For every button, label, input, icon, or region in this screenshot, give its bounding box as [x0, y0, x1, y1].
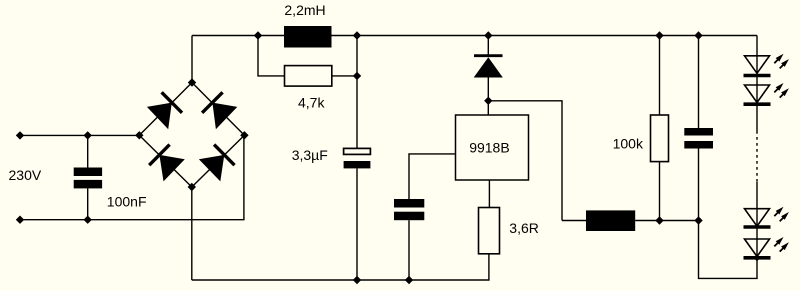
wire AC bottom line with riser to bridge right node: [20, 135, 244, 219]
wire 100nF top lead: [87, 135, 89, 167]
wire IC left lead to C2: [409, 154, 456, 199]
capacitor 100nF plates: [74, 168, 102, 189]
wire bridge edge left-bottom: [139, 135, 192, 187]
node 4,7k right: [353, 72, 361, 80]
node rail C3: [694, 31, 702, 39]
LED D4: [744, 207, 789, 227]
wire 4,7k left branch: [258, 36, 285, 76]
resistor 3,6R: [479, 208, 500, 254]
node bridge bottom: [188, 183, 196, 191]
node 100nF top: [84, 131, 92, 139]
svg-text:4,7k: 4,7k: [298, 94, 325, 110]
resistor 4,7k: [285, 66, 332, 87]
wire dashed continuation of LED string: [756, 131, 758, 182]
wire output bottom return to LED string: [699, 221, 758, 279]
resistor 100k: [651, 115, 669, 162]
wire top DC+ rail: [192, 35, 757, 37]
diode bridge D_br: [199, 145, 235, 182]
wire AC top line: [20, 134, 139, 136]
wire bridge bottom node drop: [191, 187, 193, 280]
svg-text:3,6R: 3,6R: [509, 220, 539, 236]
LED D2: [744, 54, 789, 76]
node L2 line 100k: [655, 216, 663, 224]
wire L2 left lead: [562, 220, 586, 222]
node rail 3,3uF: [353, 31, 361, 39]
svg-text:2,2mH: 2,2mH: [284, 2, 325, 18]
LED D5: [744, 237, 789, 258]
node L2 line C3: [694, 216, 702, 224]
IC U1 9918B: [456, 115, 529, 180]
wire bottom DC- rail with turn up to 3,6R: [192, 254, 489, 280]
wire 3,3uF top lead from rail: [356, 36, 358, 149]
svg-text:230V: 230V: [9, 167, 42, 183]
wire 100k top lead: [659, 36, 661, 116]
capacitor 3,3uF polarized: [344, 148, 371, 168]
node terminal AC bottom: [16, 216, 24, 224]
node LED D5 cathode: [754, 254, 761, 261]
node bridge top: [188, 78, 196, 86]
wire diode D1 bottom lead to IC: [487, 78, 489, 116]
diode bridge D_bl: [149, 145, 185, 182]
node rail 4,7k branch: [254, 31, 262, 39]
wire C2 bottom lead to rail: [408, 220, 410, 280]
wire C3 bottom lead: [698, 149, 700, 221]
svg-text:3,3µF: 3,3µF: [292, 147, 328, 163]
wire bridge top node riser: [191, 36, 193, 83]
wire bridge edge top-right: [192, 83, 244, 136]
diode bridge D_tr: [202, 92, 237, 129]
node 100nF bottom: [84, 216, 92, 224]
svg-text:100k: 100k: [613, 136, 644, 152]
svg-text:9918B: 9918B: [469, 140, 509, 156]
node terminal AC top: [16, 131, 24, 139]
LED D3: [744, 83, 789, 104]
inductor L2: [586, 210, 635, 231]
wire C3 top lead: [698, 36, 700, 129]
wire bridge edge left-top: [139, 83, 192, 136]
wire IC bottom lead to 3,6R: [488, 180, 490, 208]
wire 3,3uF bottom lead to rail: [356, 168, 358, 280]
diode bridge D_tl: [147, 92, 182, 129]
wire 100k bottom lead: [659, 162, 661, 221]
wire 100nF bottom lead: [87, 188, 89, 219]
node bridge left: [135, 131, 143, 139]
node bottom rail 3,3uF: [353, 276, 361, 284]
capacitor C3 plates: [684, 128, 713, 149]
node bottom rail C2: [405, 276, 413, 284]
wire bridge edge bottom-right: [192, 135, 245, 187]
node bridge right: [240, 131, 248, 139]
wire 4,7k right lead: [332, 75, 357, 77]
node rail 100k: [655, 31, 663, 39]
wire L2 right lead: [635, 220, 698, 222]
inductor L1 2,2mH: [284, 26, 332, 48]
diode D1 (vertical, cathode up): [474, 56, 503, 78]
wire LED string top section: [756, 36, 758, 132]
capacitor C2 plates: [394, 199, 424, 220]
wire branch from node under D1 to right then down: [488, 101, 562, 221]
svg-text:100nF: 100nF: [107, 193, 147, 209]
wire LED string bottom section: [756, 182, 758, 258]
node rail D1: [484, 31, 492, 39]
node under D1: [484, 97, 492, 105]
wire diode D1 top lead: [487, 36, 489, 57]
